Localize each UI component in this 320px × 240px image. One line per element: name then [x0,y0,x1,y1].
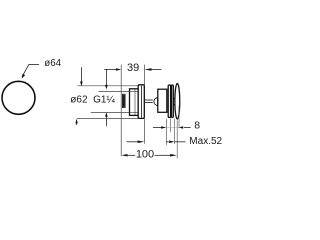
dim max52 tail right [175,141,186,143]
hub between disc2 and cap [173,98,175,100]
svg-text:100: 100 [136,148,154,160]
dim 8 arrow right [179,126,183,128]
dim 39 line right [151,69,161,71]
svg-text:ø62 G1¼: ø62 G1¼ [70,93,115,105]
threaded body [130,89,139,116]
extension line 39 right / flange face upper x=144.4 [143,65,145,85]
thread stub end cap [122,94,125,107]
ext line H3 thread nominal bottom [91,111,138,113]
ext line H2 thread nominal top [99,91,139,93]
dim 39 arrow right [144,68,151,71]
dim 100 line left [127,154,136,156]
ext line H1 flange top [77,85,138,87]
body section line [134,89,136,115]
svg-text:Max.52: Max.52 [189,136,222,147]
button base cylinder [158,89,167,112]
projection line cap right [178,106,180,128]
dim 100 arrow right [170,154,177,157]
dim 8 middle line [167,127,179,129]
svg-text:8: 8 [194,121,200,132]
projection line cylinder right [165,119,167,145]
extension line left long x=121.2 [120,65,122,157]
dim max52 arrow right [169,141,174,144]
max52 left extension line / flange face lower [144,119,146,144]
dim 8 left tail [153,127,161,129]
dim 39 arrow left [116,68,121,71]
dim max52 arrow left [138,141,145,144]
front view circle (button face) [2,81,35,114]
ext line H4 [77,118,138,120]
projection line disc1 right [170,119,172,132]
button disc 2 [172,85,174,117]
dim G1¼ bottom arrow [105,112,108,117]
flange disc [138,85,144,119]
dim max52 left tail [127,141,138,143]
dim 8 arrow left [161,126,166,129]
thread nominal lines inside body [130,91,139,93]
button disc 1 [168,85,170,117]
push rod [144,99,152,101]
dim 39 line left [104,69,116,71]
dim 8 right tail [184,127,191,129]
dim ø62 bottom arrow [75,119,77,124]
dim max52 right segment [166,141,169,143]
rod dome tip [154,98,158,106]
svg-text:ø64: ø64 [44,58,61,69]
dim 100 line right [155,154,171,156]
button cap ellipse [175,83,180,119]
projection line cap left [174,119,176,144]
leader arrowhead [22,74,26,79]
dim 100 arrow left [121,154,127,157]
flange inner face line [141,86,143,118]
svg-text:39: 39 [127,62,139,74]
dim ø62 top arrow [80,67,82,81]
projection line cap bottom / 100 right extension [176,120,178,158]
dim G1¼ top arrow [105,69,107,85]
leader line for ø64 [22,65,39,77]
